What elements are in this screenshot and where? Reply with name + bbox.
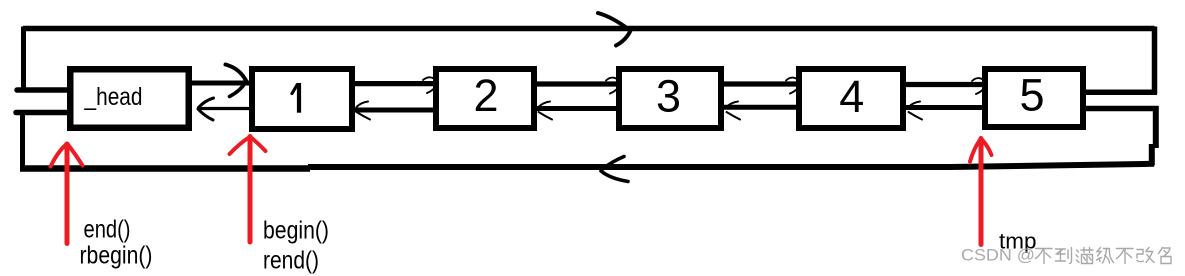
wire node2 to node1 lower bbox=[351, 108, 438, 113]
svg-text:2: 2 bbox=[473, 70, 498, 121]
svg-text:5: 5 bbox=[1019, 69, 1044, 120]
arrowhead small left at node4 bbox=[909, 102, 921, 108]
wire node2 to node3 upper bbox=[533, 81, 623, 86]
wire top loop left vertical bbox=[21, 27, 26, 92]
arrowhead left at _head bbox=[199, 98, 214, 108]
svg-text:rbegin(): rbegin() bbox=[80, 242, 153, 270]
wire node3 to node4 upper bbox=[721, 81, 802, 86]
node 3 box bbox=[619, 69, 721, 128]
svg-text:end(): end() bbox=[84, 216, 131, 244]
svg-text:_head: _head bbox=[84, 83, 143, 111]
wire node4 to node5 upper bbox=[903, 82, 988, 87]
node _head box bbox=[70, 69, 189, 128]
arrowhead small right into node2 bbox=[423, 77, 434, 80]
wire bottom loop right vertical bbox=[1153, 106, 1159, 148]
arrowhead small right into node5 bbox=[972, 78, 983, 81]
svg-text:CSDN @: CSDN @ bbox=[961, 247, 1035, 265]
wire node1 to _head lower bbox=[197, 107, 254, 110]
svg-text:rend(): rend() bbox=[263, 247, 319, 275]
watermark char gai bbox=[1137, 248, 1154, 263]
wire top loop arrowhead right bbox=[598, 13, 628, 29]
wire top loop right vertical bbox=[1152, 27, 1158, 95]
wire _head to node1 upper bbox=[188, 81, 254, 86]
arrowhead big right into node1 bbox=[226, 65, 247, 81]
watermark char ji bbox=[1097, 248, 1114, 264]
wire node3 to node2 lower bbox=[533, 106, 623, 111]
red arrow at node5 bbox=[979, 139, 984, 245]
wire node1 to node2 upper bbox=[351, 81, 438, 86]
node 4 box bbox=[799, 69, 903, 128]
red arrow at _head bbox=[65, 144, 70, 244]
wire top loop horizontal bbox=[23, 26, 1155, 32]
node 1 box bbox=[252, 69, 352, 129]
wire bottom loop horizontal bbox=[20, 165, 310, 172]
wire node5 to node4 lower bbox=[903, 105, 988, 110]
svg-text:4: 4 bbox=[839, 71, 864, 122]
wire bottom loop arrowhead left bbox=[603, 157, 625, 170]
wire box5 right lower bbox=[1083, 106, 1159, 112]
node 5 box bbox=[985, 69, 1083, 127]
svg-text:3: 3 bbox=[656, 70, 681, 121]
arrowhead small left at node3 bbox=[727, 102, 739, 108]
node 2 box bbox=[436, 69, 534, 128]
red arrow at node1 bbox=[248, 137, 253, 243]
wire into _head lower left bbox=[16, 110, 74, 116]
wire bottom loop left vertical bbox=[20, 110, 25, 170]
watermark char bu1 bbox=[1036, 249, 1053, 264]
watermark char dao bbox=[1056, 248, 1072, 264]
arrowhead small left at node1 bbox=[357, 102, 369, 108]
wire box5 right upper bbox=[1083, 89, 1157, 95]
wire into _head upper left bbox=[17, 87, 74, 93]
arrowhead small left at node2 bbox=[539, 102, 551, 108]
watermark char man bbox=[1076, 248, 1093, 264]
svg-text:begin(): begin() bbox=[263, 217, 329, 245]
arrowhead small right into node4 bbox=[786, 78, 797, 81]
label 1 bbox=[292, 85, 297, 94]
watermark CJK glyph strokes bbox=[1036, 248, 1172, 264]
watermark char ming bbox=[1159, 248, 1172, 264]
arrowhead small right into node3 bbox=[606, 78, 617, 81]
watermark char bu2 bbox=[1117, 249, 1134, 264]
wire node4 to node3 lower bbox=[721, 105, 802, 110]
